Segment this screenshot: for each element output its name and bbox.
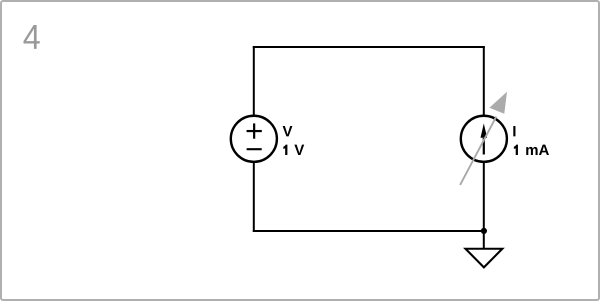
- label 1 mA (source value): [514, 145, 549, 155]
- label 1 V (source value): [283, 145, 304, 155]
- voltage source V body: [231, 116, 277, 162]
- ground symbol: [466, 249, 503, 268]
- voltage source plus sign: [247, 123, 262, 138]
- wire top (node between V and I): [253, 46, 485, 48]
- wire left lower (voltage source bottom lead): [253, 162, 255, 233]
- current source inner arrow shaft: [483, 138, 485, 155]
- current source I body: [461, 116, 507, 162]
- junction dot (ground node): [481, 228, 487, 234]
- wire right upper (current source top lead): [483, 46, 485, 116]
- wire ground stub: [483, 231, 485, 249]
- variability arrow shaft (gray diagonal): [460, 117, 496, 185]
- voltage source minus sign: [247, 148, 262, 150]
- wire left upper (voltage source top lead): [253, 46, 255, 116]
- wire right lower (current source bottom lead): [483, 162, 485, 232]
- current source inner arrow head: [481, 123, 488, 137]
- wire bottom (ground net): [253, 230, 485, 232]
- label V (source name): [283, 126, 293, 136]
- label I (source name): [513, 126, 515, 136]
- variability arrow head (gray): [489, 92, 507, 114]
- problem number 4: [24, 25, 40, 49]
